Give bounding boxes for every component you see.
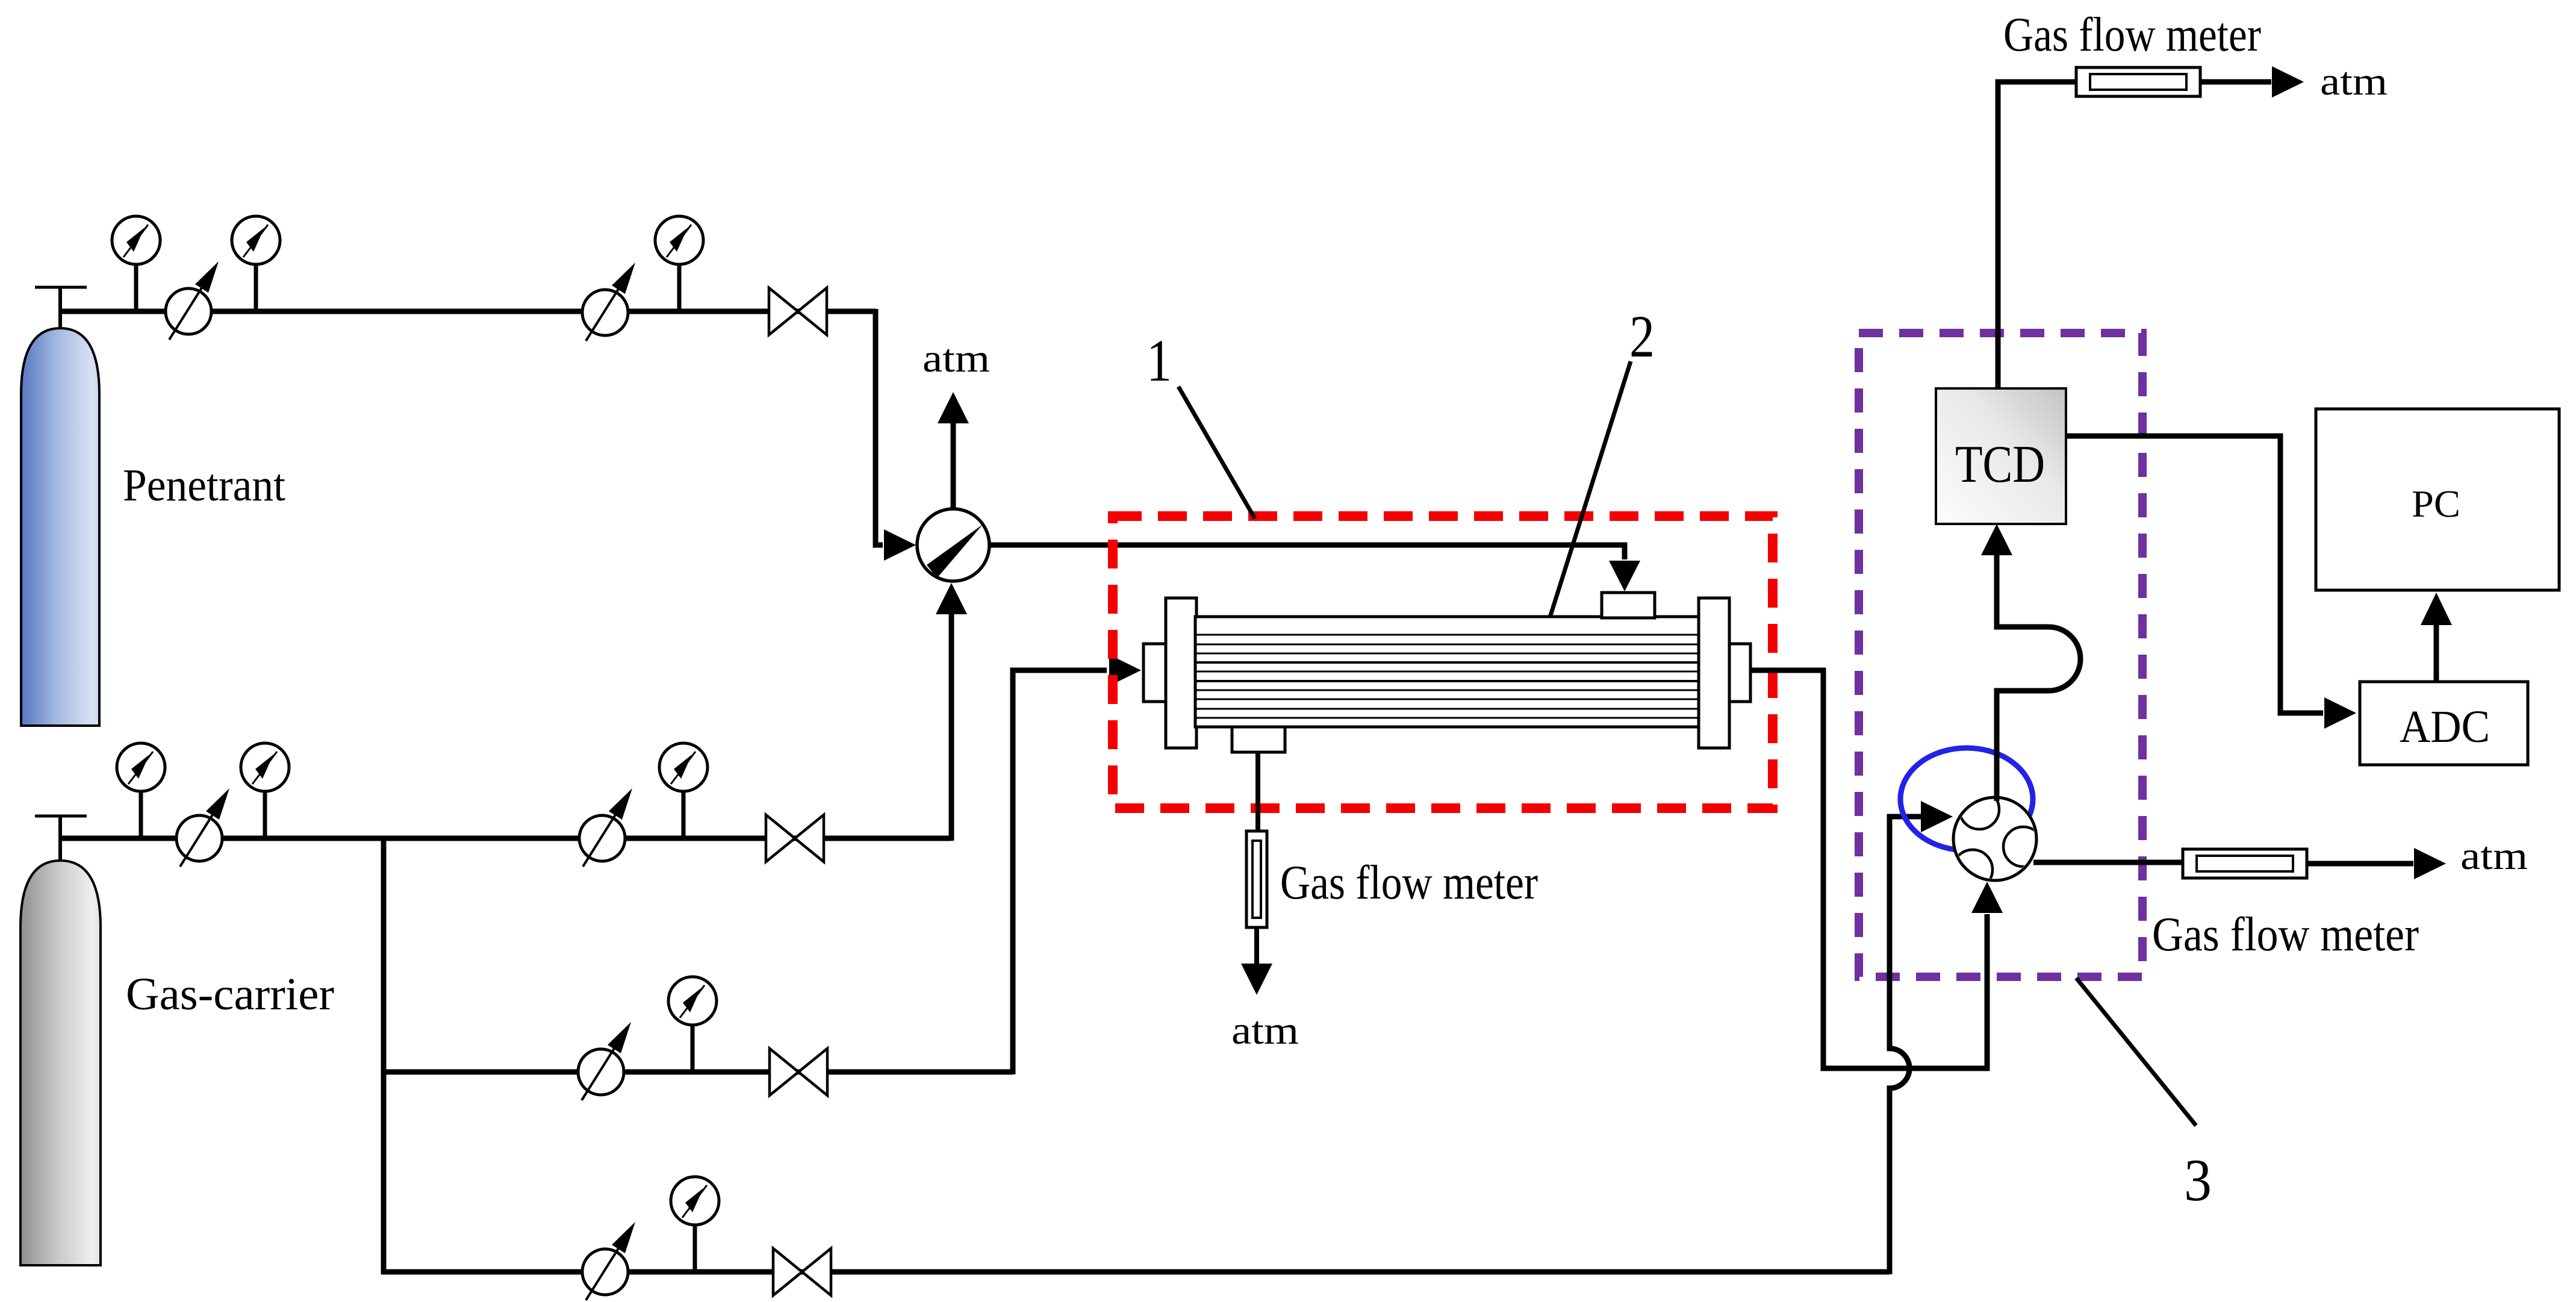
wire: sample valve to TCD with loop bbox=[1981, 524, 2080, 801]
wire: carrier branch B bbox=[381, 1070, 1013, 1075]
wire: retentate line from module to sample valve bbox=[1750, 670, 2003, 1068]
svg-text:TCD: TCD bbox=[1955, 435, 2045, 494]
membrane module: shell body bbox=[1195, 617, 1700, 727]
gas flow meter (permeate, vertical) bbox=[1246, 831, 1267, 927]
membrane module: bottom permeate fitting bbox=[1232, 727, 1285, 752]
wire: ADC to PC arrow bbox=[2421, 593, 2452, 682]
cylinder valve (carrier bottle) bbox=[35, 816, 87, 861]
label: atm (mixing vent) bbox=[922, 337, 990, 381]
wire: penetrant drop to mixing gauge bbox=[876, 309, 916, 561]
svg-text:Gas flow meter: Gas flow meter bbox=[2003, 8, 2261, 61]
gas flow meter (valve vent) bbox=[2183, 849, 2307, 878]
wire: permeate line to gas flow meter bbox=[1255, 752, 1260, 832]
svg-text:1: 1 bbox=[1146, 327, 1172, 394]
pressure gauge G4 bbox=[117, 743, 165, 838]
wire: sample valve outlet to bottom gas flow meter bbox=[2033, 860, 2184, 865]
svg-text:Gas flow meter: Gas flow meter bbox=[1280, 856, 1538, 909]
gas cylinder: Penetrant bbox=[21, 328, 99, 726]
label: Gas-carrier bbox=[126, 969, 334, 1020]
pressure gauge G7 bbox=[668, 977, 717, 1072]
pressure gauge G8 bbox=[671, 1177, 719, 1272]
label 3 bbox=[2184, 1147, 2212, 1213]
wire: top vent arrow to atm bbox=[2200, 66, 2304, 98]
cylinder valve (penetrant bottle) bbox=[35, 287, 87, 328]
label: Gas flow meter (bottom) bbox=[2152, 908, 2419, 961]
wire: branch B riser to module inlet bbox=[1013, 655, 1141, 1074]
sample injection valve bbox=[1953, 790, 2043, 889]
wire: carrier riser to mixing gauge bbox=[936, 583, 967, 841]
svg-text:Penetrant: Penetrant bbox=[123, 460, 285, 511]
membrane module: right nozzle bbox=[1729, 644, 1750, 702]
leader line for label 1 bbox=[1178, 387, 1255, 519]
ADC box bbox=[2360, 682, 2528, 765]
svg-text:Gas flow meter: Gas flow meter bbox=[2152, 908, 2419, 961]
regulator R4 bbox=[579, 788, 632, 867]
valve V3 (branch B) bbox=[770, 1048, 827, 1095]
label 2 bbox=[1629, 303, 1655, 370]
label: atm (permeate vent) bbox=[1231, 1009, 1299, 1053]
svg-text:atm: atm bbox=[1231, 1009, 1299, 1053]
svg-text:atm: atm bbox=[922, 337, 990, 381]
label: atm (top vent) bbox=[2320, 60, 2388, 104]
valve V2 (carrier line to mixing gauge) bbox=[766, 815, 824, 862]
wire: mixed feed to membrane module bbox=[989, 545, 1640, 591]
blue ellipse highlight on sample valve bbox=[1900, 748, 2033, 850]
valve V1 (penetrant line) bbox=[769, 288, 827, 335]
label: Gas flow meter (permeate) bbox=[1280, 856, 1538, 909]
purple dashed box (gas chromatograph 3) bbox=[1859, 333, 2142, 977]
TCD detector bbox=[1936, 388, 2066, 524]
wire: TCD outlet to top gas flow meter bbox=[1998, 82, 2076, 390]
pressure gauge G1 bbox=[112, 216, 160, 311]
pressure gauge G6 bbox=[659, 743, 708, 838]
membrane module: left end cap bbox=[1166, 598, 1196, 748]
gas cylinder: Gas-carrier bbox=[20, 861, 101, 1265]
pressure gauge G5 bbox=[241, 743, 289, 838]
regulator R6 bbox=[582, 1222, 635, 1300]
membrane module: left nozzle bbox=[1143, 644, 1167, 702]
regulator R5 bbox=[578, 1022, 631, 1100]
wire: carrier main line bbox=[60, 836, 951, 841]
leader line for label 2 bbox=[1550, 361, 1631, 617]
wire: carrier branch C riser with crossover hop bbox=[1890, 801, 1953, 1274]
wire: carrier branch C (bottom) bbox=[381, 1269, 1890, 1275]
gas flow meter (TCD outlet) bbox=[2076, 67, 2200, 96]
wire: permeate vent arrow bbox=[1241, 927, 1272, 995]
PC box bbox=[2316, 409, 2559, 590]
wire: vent to atm above mixing gauge bbox=[938, 392, 969, 508]
membrane module: right end cap bbox=[1699, 598, 1729, 748]
leader line for label 3 bbox=[2076, 978, 2196, 1126]
pressure gauge G3 bbox=[655, 216, 703, 311]
label: Gas flow meter (top) bbox=[2003, 8, 2261, 61]
regulator R3 bbox=[176, 788, 229, 867]
wire: penetrant main line bbox=[60, 309, 876, 314]
svg-text:atm: atm bbox=[2320, 60, 2388, 104]
node: carrier branch junction bbox=[381, 838, 387, 1274]
label: atm (bottom vent) bbox=[2460, 834, 2528, 878]
membrane module: fibre bundle bbox=[1196, 635, 1699, 718]
pressure gauge G2 bbox=[232, 216, 280, 311]
membrane module: top feed fitting bbox=[1602, 593, 1655, 618]
svg-text:ADC: ADC bbox=[2400, 702, 2490, 752]
regulator R1 bbox=[166, 261, 219, 340]
svg-text:3: 3 bbox=[2184, 1147, 2212, 1213]
mixing point pressure gauge bbox=[917, 509, 989, 581]
svg-text:2: 2 bbox=[1629, 303, 1655, 370]
label 1 bbox=[1146, 327, 1172, 394]
red dashed box (membrane cell 1) bbox=[1113, 516, 1773, 808]
svg-text:atm: atm bbox=[2460, 834, 2528, 878]
wire: TCD signal to ADC bbox=[2066, 436, 2356, 729]
svg-text:Gas-carrier: Gas-carrier bbox=[126, 969, 334, 1020]
svg-text:PC: PC bbox=[2412, 482, 2460, 525]
wire: bottom vent arrow to atm bbox=[2307, 848, 2446, 879]
label: Penetrant bbox=[123, 460, 285, 511]
regulator R2 bbox=[582, 263, 635, 341]
valve V4 (branch C) bbox=[773, 1248, 831, 1295]
